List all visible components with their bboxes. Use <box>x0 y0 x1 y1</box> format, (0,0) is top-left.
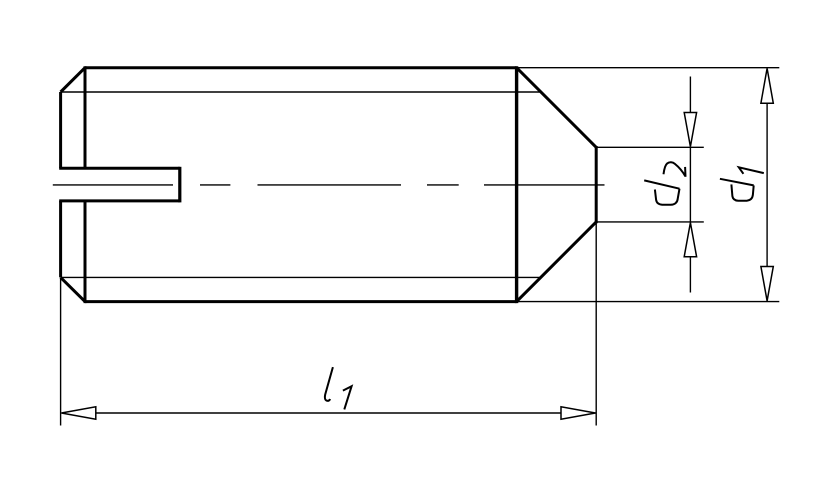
label d2 letter d stem <box>644 180 679 188</box>
centerline dash 2 <box>200 184 230 186</box>
chamfer inner vertical upper <box>84 66 87 168</box>
l1 dimension line <box>96 412 561 414</box>
centerline dash 4 <box>427 184 459 186</box>
slot bottom line <box>59 199 180 202</box>
l1 extension line left <box>60 279 62 426</box>
bottom-left chamfer <box>61 277 85 301</box>
screw body top edge <box>85 66 517 69</box>
d2 arrow bottom pointing up <box>684 223 696 257</box>
cone lower diagonal <box>517 222 597 302</box>
d2 arrow top pointing down <box>684 113 696 147</box>
slot end vertical <box>178 167 181 203</box>
d2 extension line top <box>596 146 704 148</box>
label d1 subscript 1 <box>739 167 764 174</box>
d2 dimension line upper segment <box>689 77 691 113</box>
l1 arrow right pointing right <box>561 407 595 419</box>
d2 dimension line lower segment <box>689 257 691 292</box>
screw body right face <box>515 66 518 303</box>
cone upper diagonal <box>517 68 597 148</box>
screw body bottom edge <box>85 300 517 303</box>
d1 extension line bottom <box>517 301 780 303</box>
label d2 letter d bowl <box>655 189 680 205</box>
d1 extension line top <box>517 67 780 69</box>
label l1 subscript 1 <box>343 386 352 409</box>
thread root line top <box>61 91 541 93</box>
chamfer inner vertical lower <box>84 201 87 303</box>
d2 extension line bottom <box>596 221 704 223</box>
d1 dimension line <box>766 103 768 266</box>
label l1 letter l <box>325 367 333 401</box>
d1 arrow bottom pointing down <box>761 267 773 301</box>
label d1 letter d bowl <box>731 184 753 200</box>
centerline dash 5 <box>484 184 605 186</box>
d2 dimension line middle segment <box>689 147 691 222</box>
centerline dash 1 <box>53 184 173 186</box>
l1 extension line right <box>595 223 597 425</box>
label d2 subscript 2 <box>664 162 686 177</box>
screw body left face upper segment <box>59 92 62 168</box>
slot top line <box>59 167 180 170</box>
thread root line bottom <box>61 276 541 278</box>
label d1 letter d stem <box>720 179 754 186</box>
centerline dash 3 <box>258 184 402 186</box>
screw body left face lower segment <box>59 201 62 278</box>
cone tip face <box>595 146 598 223</box>
l1 arrow left pointing left <box>61 407 95 419</box>
top-left chamfer <box>61 68 85 92</box>
d1 arrow top pointing up <box>761 68 773 103</box>
